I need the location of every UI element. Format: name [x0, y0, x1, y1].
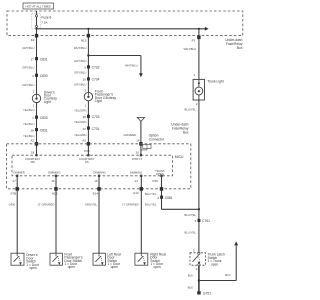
label Under-dash Fuse/Relay Box (top right): [225, 38, 243, 50]
svg-text:YEL/GRN: YEL/GRN: [74, 108, 86, 112]
svg-text:YEL/GRN: YEL/GRN: [74, 120, 86, 124]
svg-text:INTR LT: INTR LT: [132, 157, 143, 161]
connector C733 pin 18: [82, 115, 99, 119]
svg-text:open: open: [30, 266, 38, 270]
svg-text:HOT AT ALL TIMES: HOT AT ALL TIMES: [26, 4, 51, 8]
svg-text:Connector: Connector: [149, 137, 165, 141]
wire from driver's lamp to MICU pin 18: [36, 103, 38, 156]
svg-text:C831: C831: [40, 57, 48, 61]
svg-text:DIMMER: DIMMER: [13, 170, 24, 174]
label Option Connector: [149, 134, 165, 142]
svg-text:LT GRN/RED: LT GRN/RED: [38, 202, 55, 206]
svg-text:WHT/BLU: WHT/BLU: [184, 47, 197, 51]
MICU pin mark: [87, 154, 89, 156]
label Right Rear Door Switch: [150, 253, 167, 269]
svg-text:GRN/YEL: GRN/YEL: [85, 202, 98, 206]
MICU internal label TRUNK OPEN: [155, 169, 165, 176]
MICU pin mark: [16, 175, 18, 177]
wire from passenger's lamp to MICU pin P30: [87, 101, 89, 155]
svg-text:C733: C733: [92, 115, 100, 119]
wire MICU pin P29 to trunk circuit: [162, 176, 199, 210]
svg-text:Box: Box: [237, 46, 243, 50]
svg-text:BLK: BLK: [225, 273, 230, 277]
svg-text:YEL/GRN: YEL/GRN: [74, 133, 86, 137]
wire F2 drop (trunk light feed): [198, 29, 200, 80]
svg-text:YEL/BLU: YEL/BLU: [23, 134, 35, 138]
label Driver's Door Courtesy Light: [44, 90, 58, 104]
MICU pin mark: [140, 175, 142, 177]
label Driver's Door Switch: [26, 253, 40, 270]
fuse Fuse 6 7.5A: [32, 11, 52, 29]
MICU pin mark: [160, 175, 162, 177]
svg-text:16: 16: [51, 179, 55, 183]
svg-text:17: 17: [12, 179, 16, 183]
svg-text:10: 10: [136, 151, 140, 155]
svg-text:open: open: [68, 265, 76, 269]
svg-text:12: 12: [82, 127, 86, 131]
arrow to another circuit (up): [234, 241, 238, 245]
connector C581 pin 4: [157, 196, 173, 200]
svg-text:YEL/BLU: YEL/BLU: [23, 108, 35, 112]
label Left Rear Door Switch: [107, 253, 121, 269]
door switch right rear: [135, 253, 148, 265]
junction to other ground branch: [198, 279, 200, 281]
under-dash fuse/relay box (top): [7, 11, 243, 36]
trunk latch switch: [190, 249, 205, 266]
label Front Passenger's Door Switch: [64, 253, 83, 269]
svg-text:Box: Box: [183, 131, 189, 135]
wire trunk light to trunk latch switch: [198, 100, 200, 253]
svg-text:GRY/BLU: GRY/BLU: [74, 59, 86, 63]
lamp driver's door courtesy light: [32, 94, 40, 102]
connector C831 pin 17: [31, 57, 48, 61]
svg-text:GRY/BLU: GRY/BLU: [74, 83, 86, 87]
svg-text:18: 18: [82, 115, 86, 119]
connector C761 pin 6: [195, 219, 211, 223]
MICU pin mark: [140, 154, 142, 156]
arrow to another circuit (down): [139, 73, 143, 77]
wire MICU pin 16 to left rear door switch: [98, 176, 100, 253]
wire trunk latch switch to ground: [198, 266, 200, 291]
connector pin at lower box edge (H13): [140, 187, 143, 191]
svg-text:C732: C732: [92, 66, 100, 70]
svg-text:A2: A2: [30, 138, 34, 142]
svg-text:open: open: [154, 265, 162, 269]
wire branch to option connector: [88, 56, 140, 74]
door switch front passenger's: [50, 253, 62, 265]
lamp trunk light: [193, 73, 204, 100]
svg-text:P29: P29: [152, 179, 158, 183]
svg-text:BLK: BLK: [188, 273, 193, 277]
svg-text:7.5A: 7.5A: [41, 21, 47, 25]
svg-text:BLK: BLK: [188, 286, 193, 290]
junction with P29 wire: [198, 208, 200, 210]
svg-text:C581: C581: [165, 196, 173, 200]
MICU pin mark: [35, 154, 37, 156]
connector T1: [141, 145, 151, 150]
label Under-dash Fuse/Relay Box (lower): [171, 123, 189, 135]
svg-text:GRY/BLU: GRY/BLU: [74, 71, 86, 75]
svg-text:16: 16: [94, 179, 98, 183]
MICU internal label COURTESY AS: [79, 157, 95, 164]
svg-text:18: 18: [31, 128, 35, 132]
svg-text:C761: C761: [202, 219, 210, 223]
svg-text:C831: C831: [40, 128, 48, 132]
label Front Passenger's Door Courtesy Light: [95, 89, 117, 103]
svg-text:C830: C830: [40, 74, 48, 78]
svg-text:Light: Light: [44, 100, 51, 104]
wire MICU pin 14 to right rear door switch: [140, 176, 142, 253]
svg-text:G751: G751: [203, 292, 211, 296]
bus wire from fuse to right exit: [37, 28, 206, 30]
connector C732 pin 9: [84, 65, 100, 69]
svg-text:Trunk Light: Trunk Light: [207, 80, 223, 84]
door switch driver's: [11, 253, 24, 265]
svg-text:10: 10: [82, 78, 86, 82]
wire MICU pin 16 to front passenger's door switch: [55, 176, 57, 253]
svg-text:Fuse 6: Fuse 6: [42, 16, 52, 20]
svg-text:DIMMING: DIMMING: [48, 170, 60, 174]
MICU pin mark: [55, 175, 57, 177]
connector pin at lower box edge: [160, 187, 163, 191]
svg-text:MICU: MICU: [175, 155, 184, 159]
MICU internal label COURTESY DR: [25, 157, 41, 164]
junction node to F2 drop: [198, 28, 200, 30]
junction to option connector branch: [87, 54, 89, 56]
svg-text:BLU/YEL: BLU/YEL: [145, 192, 157, 196]
svg-text:WHT/BLU: WHT/BLU: [125, 64, 138, 68]
wire branch to other circuit ground: [199, 245, 236, 280]
connector C731 pin 12: [82, 127, 99, 131]
svg-text:GRY/BLU: GRY/BLU: [22, 65, 34, 69]
svg-text:WHT/BLU: WHT/BLU: [74, 46, 87, 50]
svg-text:GRY/BLU: GRY/BLU: [22, 46, 34, 50]
svg-text:14: 14: [136, 138, 140, 142]
label Trunk Latch Switch: [208, 252, 225, 266]
continuation triangle from branch arrow: [137, 117, 144, 121]
door switch left rear: [93, 253, 105, 265]
svg-text:F2: F2: [192, 38, 196, 42]
svg-text:18: 18: [31, 150, 35, 154]
connector pin at lower box edge (E14): [97, 187, 100, 191]
connector pin at lower box edge (H13): [54, 187, 57, 191]
connector pin at lower box edge (S7B): [16, 187, 19, 191]
ground G751: [197, 291, 211, 295]
wire N15 drop (passenger's courtesy feed): [87, 29, 89, 93]
svg-text:DIMMING: DIMMING: [130, 170, 142, 174]
junction node to N15 drop: [87, 28, 89, 30]
svg-text:open: open: [111, 265, 119, 269]
connector C734 pin 10: [82, 77, 99, 81]
svg-text:YEL/BLU: YEL/BLU: [23, 122, 35, 126]
wire from triangle to option connector: [140, 121, 142, 155]
svg-text:OPEN: OPEN: [156, 172, 164, 176]
svg-text:GRN: GRN: [9, 202, 15, 206]
wire MICU pin 17 to driver's door switch: [16, 176, 18, 253]
under-dash fuse/relay box (lower, contains MICU): [7, 144, 191, 189]
lamp front passenger's door courtesy light: [84, 92, 92, 100]
power label HOT AT ALL TIMES: [23, 3, 54, 9]
svg-text:T1: T1: [145, 145, 149, 149]
svg-text:N15: N15: [81, 38, 87, 42]
junction at fuse bottom: [35, 28, 37, 30]
svg-text:A3: A3: [82, 138, 86, 142]
connector C830 pin 2: [32, 74, 48, 78]
svg-text:GRY/BLU: GRY/BLU: [22, 83, 34, 87]
svg-text:P30: P30: [84, 149, 90, 153]
control unit MICU: [12, 155, 173, 176]
connector pin F2 at box edge: [197, 36, 200, 40]
svg-text:BLU/YEL: BLU/YEL: [184, 107, 196, 111]
svg-text:17: 17: [31, 57, 35, 61]
svg-text:BLU/YEL: BLU/YEL: [145, 203, 157, 207]
svg-text:H13: H13: [52, 191, 58, 195]
svg-text:S7B: S7B: [10, 191, 16, 195]
MICU pin mark: [98, 175, 100, 177]
svg-text:C833: C833: [40, 116, 48, 120]
connector pin N15 at box edge: [87, 34, 90, 38]
svg-text:BLU/YEL: BLU/YEL: [184, 231, 196, 235]
svg-text:GRN/RED: GRN/RED: [123, 133, 136, 137]
svg-text:H13: H13: [133, 191, 139, 195]
wire K3 drop (driver's courtesy feed): [36, 29, 38, 95]
svg-text:AS: AS: [85, 160, 89, 164]
svg-text:E14: E14: [93, 191, 99, 195]
connector square at box edge (option): [139, 142, 142, 146]
arrow continuation of bus (to another circuit): [205, 27, 209, 31]
svg-text:open: open: [211, 263, 219, 267]
connector pin K3 at box edge: [35, 34, 38, 38]
connector C831 pin 18: [31, 128, 48, 132]
svg-text:BLU/YEL: BLU/YEL: [184, 213, 196, 217]
svg-text:Light: Light: [95, 99, 102, 103]
svg-text:C734: C734: [92, 78, 100, 82]
svg-text:14: 14: [135, 179, 139, 183]
svg-text:DR: DR: [31, 160, 35, 164]
svg-text:K3: K3: [31, 38, 35, 42]
connector C833 pin 1: [32, 116, 48, 120]
svg-text:LT GRN/RED: LT GRN/RED: [122, 202, 139, 206]
svg-text:DIMMING: DIMMING: [93, 170, 105, 174]
svg-text:C731: C731: [92, 127, 100, 131]
